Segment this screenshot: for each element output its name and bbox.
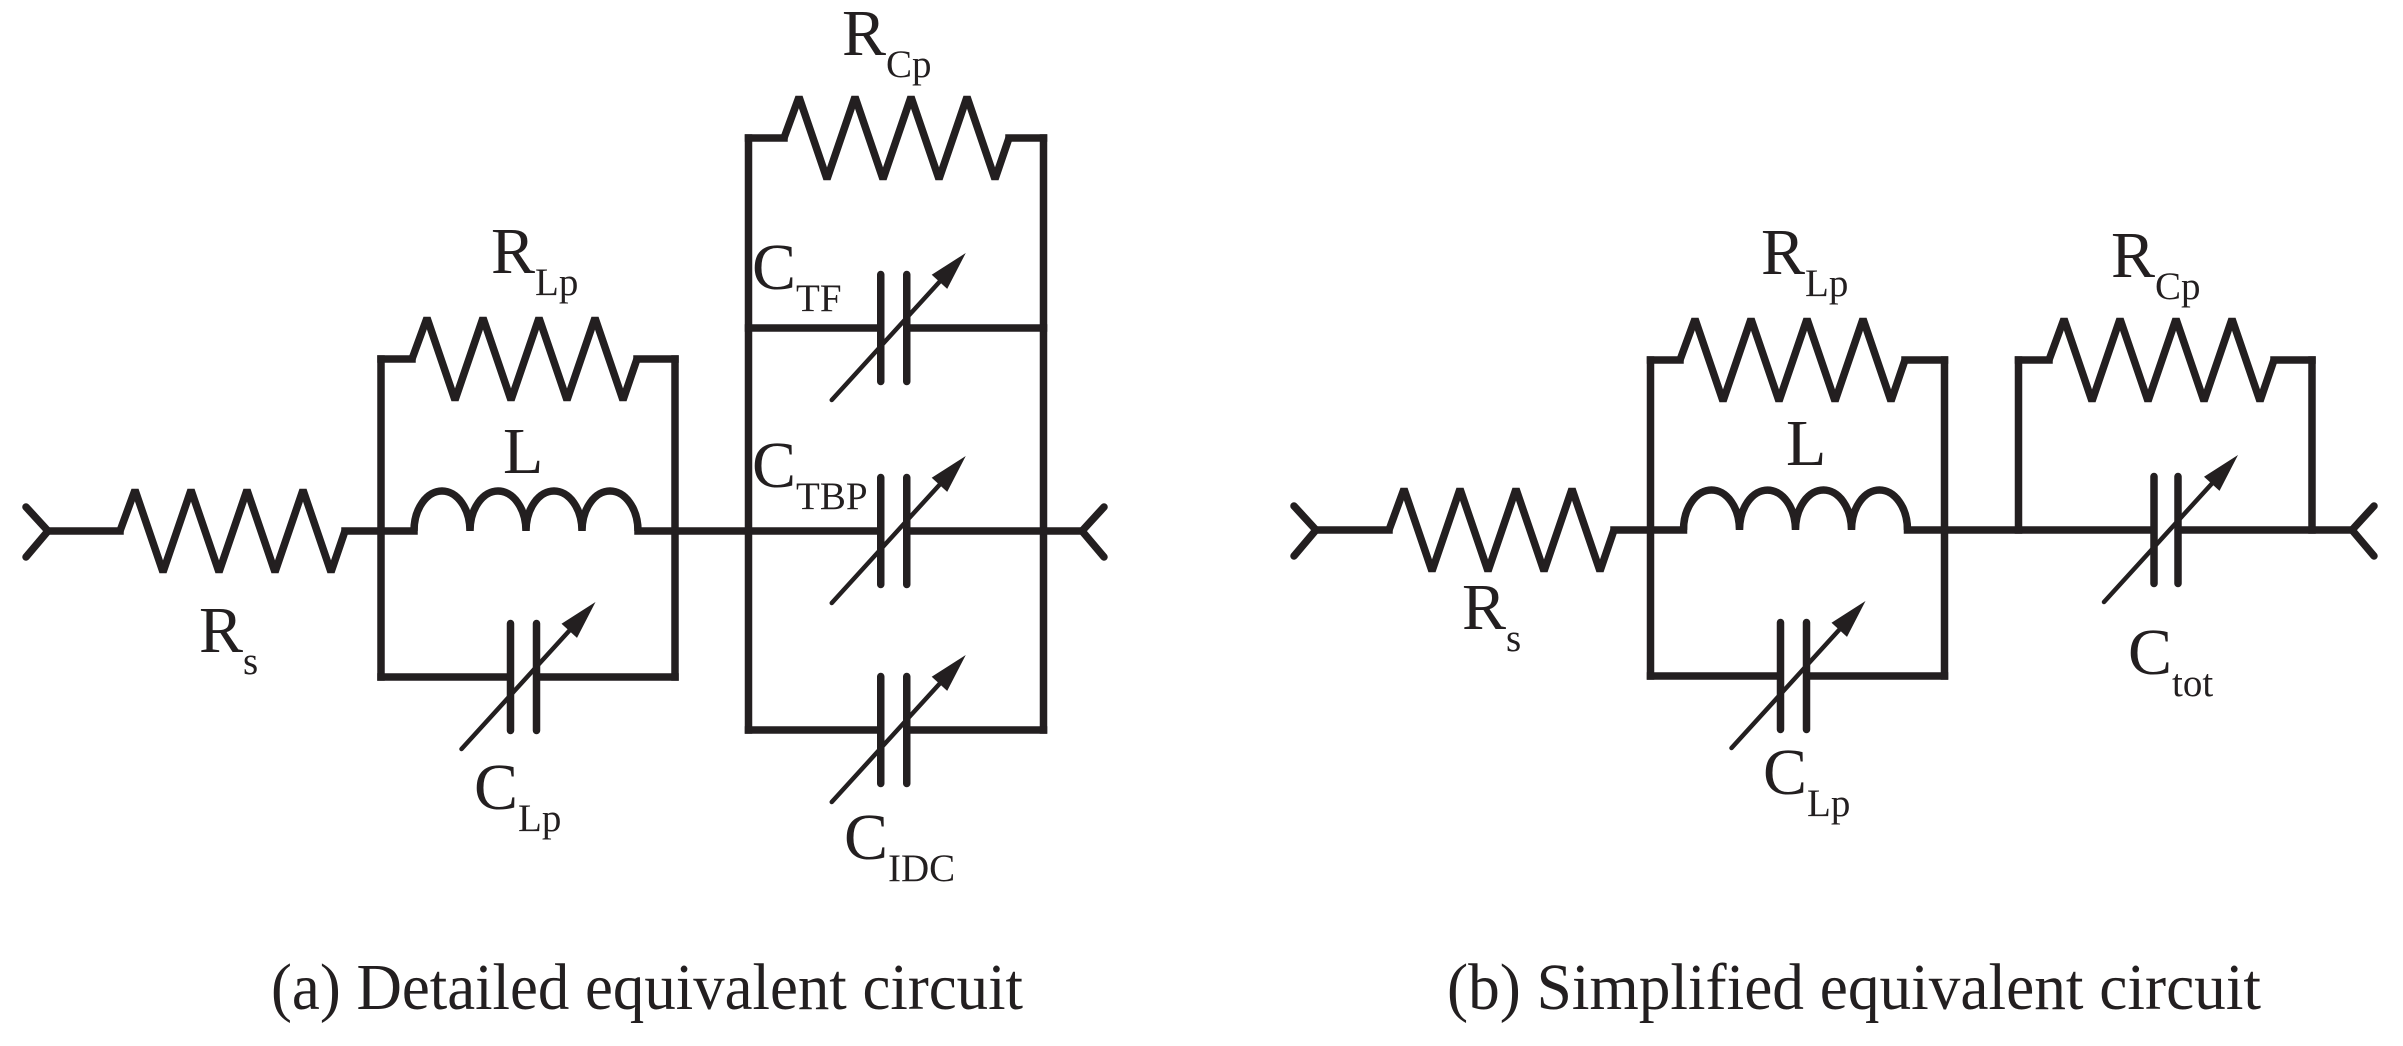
wire right vertical of C-block (a) bbox=[1040, 138, 1048, 730]
arrow of variable capacitor CLp (b) bbox=[1732, 628, 1842, 748]
wire L to C-block (b) bbox=[1908, 526, 2151, 534]
resistor RCp (a) bbox=[784, 97, 1009, 179]
resistor Rs (a) bbox=[120, 490, 345, 572]
svg-text:Ctot: Ctot bbox=[2128, 616, 2213, 705]
wire Rs to block1 (a) bbox=[345, 527, 414, 535]
svg-text:L: L bbox=[503, 415, 543, 488]
resistor Rs (b) bbox=[1389, 489, 1614, 571]
wire input to Rs (b) bbox=[1316, 526, 1389, 534]
wire RCp to top-right corner (a) bbox=[1009, 134, 1044, 142]
arrow of variable capacitor CTBP (a) bbox=[832, 483, 942, 603]
wire bottom-right of L-block (b) bbox=[1811, 672, 1945, 680]
wire right vertical of L-block (b) bbox=[1941, 360, 1949, 676]
inductor L (a) bbox=[414, 491, 638, 531]
wire CIDC branch right (a) bbox=[911, 726, 1044, 734]
wire left vertical of C-block (a) bbox=[745, 138, 753, 730]
resistor RCp (b) bbox=[2049, 319, 2274, 401]
capacitor CLp (b) bbox=[1781, 623, 1807, 730]
resistor RLp (a) bbox=[412, 318, 637, 400]
wire top-left stub to RLp (a) bbox=[381, 355, 412, 363]
capacitor CIDC (a) bbox=[881, 677, 907, 784]
wire bottom-left of L-block (a) bbox=[381, 673, 506, 681]
wire CIDC branch left (a) bbox=[749, 726, 877, 734]
svg-text:RLp: RLp bbox=[1761, 216, 1848, 305]
svg-text:RLp: RLp bbox=[491, 215, 578, 304]
wire RLp to top-right corner (a) bbox=[637, 355, 675, 363]
capacitor Ctot (b) bbox=[2154, 477, 2178, 584]
wire CTBP to output (a) bbox=[911, 527, 1082, 535]
svg-text:L: L bbox=[1786, 407, 1826, 480]
svg-text:CIDC: CIDC bbox=[844, 801, 955, 890]
wire top-left stub to RCp (a) bbox=[749, 134, 785, 142]
svg-text:CTBP: CTBP bbox=[752, 429, 868, 518]
wire top-left stub to RLp (b) bbox=[1651, 356, 1681, 364]
wire left vertical of L-block (a) bbox=[377, 359, 385, 677]
svg-text:CLp: CLp bbox=[474, 751, 561, 840]
wire right vertical of L-block (a) bbox=[671, 359, 679, 677]
input terminal (b) bbox=[1294, 506, 1316, 556]
input terminal (a) bbox=[26, 507, 48, 557]
svg-text:(b) Simplified equivalent circ: (b) Simplified equivalent circuit bbox=[1447, 951, 2261, 1024]
output terminal (b) bbox=[2352, 506, 2374, 556]
wire RCp to top-right corner (b) bbox=[2274, 356, 2312, 364]
wire top-left stub to RCp (b) bbox=[2019, 356, 2050, 364]
wire RLp to top-right corner (b) bbox=[1905, 356, 1945, 364]
svg-text:CLp: CLp bbox=[1763, 736, 1850, 825]
arrow of variable capacitor CIDC (a) bbox=[832, 682, 942, 802]
wire bottom-left of L-block (b) bbox=[1651, 672, 1777, 680]
svg-text:(a) Detailed equivalent circui: (a) Detailed equivalent circuit bbox=[271, 951, 1023, 1024]
svg-text:RCp: RCp bbox=[2111, 219, 2201, 308]
wire left vertical of Ctot-block (b) bbox=[2015, 360, 2023, 530]
svg-text:CTF: CTF bbox=[752, 231, 842, 320]
wire CTF branch left (a) bbox=[749, 324, 877, 332]
inductor L (b) bbox=[1684, 490, 1908, 530]
wire L to block2 (a) bbox=[638, 527, 876, 535]
wire Ctot to output (b) bbox=[2182, 526, 2352, 534]
wire input to Rs (a) bbox=[48, 527, 120, 535]
arrow of variable capacitor CTF (a) bbox=[832, 280, 942, 400]
svg-text:Rs: Rs bbox=[1462, 571, 1521, 660]
capacitor CTBP (a) bbox=[881, 478, 907, 585]
arrow of variable capacitor Ctot (b) bbox=[2104, 482, 2214, 602]
capacitor CLp (a) bbox=[511, 624, 537, 731]
capacitor CTF (a) bbox=[881, 275, 907, 382]
wire right vertical of Ctot-block (b) bbox=[2308, 360, 2316, 530]
wire bottom-right of L-block (a) bbox=[541, 673, 675, 681]
svg-text:RCp: RCp bbox=[842, 0, 932, 86]
wire left vertical of L-block (b) bbox=[1647, 360, 1655, 676]
resistor RLp (b) bbox=[1680, 319, 1905, 401]
arrow of variable capacitor CLp (a) bbox=[462, 629, 572, 749]
svg-text:Rs: Rs bbox=[199, 594, 258, 683]
wire Rs to block1 (b) bbox=[1614, 526, 1684, 534]
wire CTF branch right (a) bbox=[911, 324, 1044, 332]
output terminal (a) bbox=[1082, 507, 1104, 557]
